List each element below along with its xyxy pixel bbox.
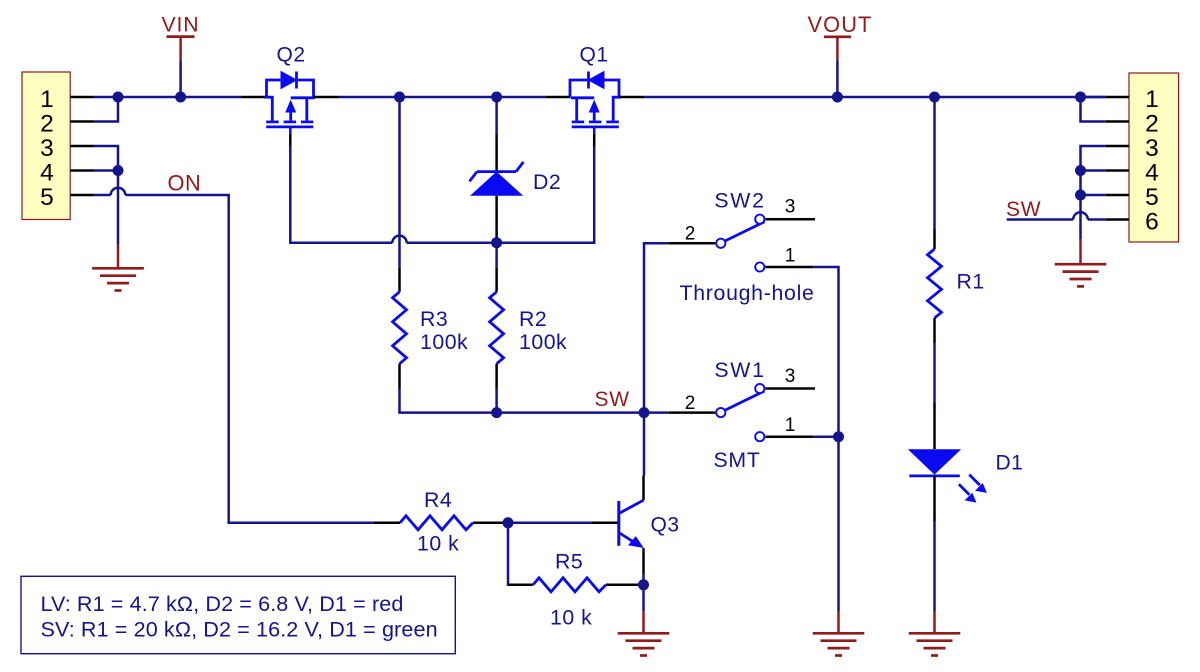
pin Q3 collector stub (642, 476, 645, 501)
note box (21, 576, 455, 653)
svg-text:1: 1 (785, 415, 796, 436)
wire D2 top net (495, 97, 498, 134)
pin 1 of J2 (1106, 96, 1129, 99)
svg-text:Through-hole: Through-hole (680, 281, 815, 305)
wire ON net from J1 pin5 with hop (94, 195, 375, 523)
connector J1 (left, pins 1-5) (22, 72, 70, 220)
svg-text:Q2: Q2 (276, 43, 305, 66)
power flag VIN (162, 12, 200, 60)
node J1 pin4 junction (113, 165, 124, 176)
pin SW2 pin2 stub (668, 242, 715, 245)
wire SW up to SW2 (644, 243, 668, 412)
svg-text:3: 3 (785, 366, 796, 387)
svg-text:5: 5 (40, 184, 54, 211)
wire SW net to J2 pin6 with hop (1007, 218, 1106, 221)
wire J2 pins 3-5 to ground (1081, 146, 1106, 240)
wire R1 to D1 (933, 343, 936, 403)
wire D1 to ground (933, 521, 936, 611)
wire J2 pin2 up to pin1 (1081, 97, 1106, 122)
svg-text:D2: D2 (533, 170, 561, 194)
wire top rail VIN segment (118, 96, 242, 99)
pin 1 of J1 (70, 96, 93, 99)
wire hop over ground wire (right) (1073, 212, 1088, 219)
svg-text:2: 2 (685, 224, 696, 245)
svg-text:R2: R2 (519, 307, 547, 331)
wire hop over R3 wire (392, 236, 406, 243)
pin R2 bottom stub (495, 364, 498, 389)
wire SW1 pin1 to vertical (813, 435, 838, 438)
switch SW2 (716, 215, 764, 272)
pin Q1 stub left (546, 96, 570, 99)
svg-text:2: 2 (40, 110, 54, 137)
resistor R5 (533, 578, 606, 592)
wire SW2 pin1 down to SMT junction (813, 267, 838, 437)
node emitter junction (638, 579, 649, 590)
svg-text:R1: R1 (957, 270, 985, 294)
pin Q3 emitter stub (642, 548, 645, 574)
wire base net to Q3 (508, 522, 592, 525)
svg-text:2: 2 (1145, 110, 1159, 137)
pin Q2 gate stub (289, 134, 292, 146)
ground (below J2) (1055, 240, 1107, 287)
svg-text:ON: ON (168, 171, 202, 196)
pin Q2 source stub (242, 96, 267, 99)
svg-text:4: 4 (40, 159, 54, 186)
pin 3 of J1 (70, 145, 93, 148)
node R2 bottom junction (491, 407, 502, 418)
wire R1 top net (933, 97, 936, 229)
svg-text:R3: R3 (420, 307, 448, 331)
pin Q2 drain stub (314, 96, 339, 99)
pin 3 of J2 (1106, 145, 1129, 148)
pin SW2 pin3 stub (765, 218, 815, 221)
pin R4 right stub (473, 522, 508, 525)
pin R3 top stub (398, 268, 401, 292)
node J2 pin5 junction (1075, 190, 1086, 201)
svg-text:100k: 100k (519, 330, 567, 354)
svg-text:100k: 100k (420, 330, 468, 354)
wire R2 bottom to SW rail (495, 389, 498, 413)
node VIN junction (175, 92, 186, 103)
svg-text:10 k: 10 k (417, 532, 459, 556)
svg-text:4: 4 (1145, 159, 1159, 186)
resistor R4 (400, 516, 473, 530)
resistor R1 (928, 249, 942, 318)
node D2 top junction (491, 92, 502, 103)
pin D1 cathode stub (933, 476, 936, 521)
node VOUT junction (832, 92, 843, 103)
svg-text:2: 2 (685, 393, 696, 414)
wire SW junction down to Q3 collector (643, 413, 646, 476)
diode D1 (LED) (908, 449, 987, 502)
node J1 pin1 junction (113, 92, 124, 103)
svg-text:VIN: VIN (162, 12, 200, 36)
svg-text:3: 3 (785, 197, 796, 218)
pin R4 left stub (374, 522, 400, 525)
pin SW2 pin1 stub (765, 266, 813, 269)
pin SW1 pin2 stub (668, 411, 715, 414)
pin D2 cathode stub (495, 134, 498, 171)
wire R3 top net (398, 97, 401, 268)
node SMT junction (833, 431, 844, 442)
node J2 pin1 junction (1075, 92, 1086, 103)
node SW junction (639, 407, 650, 418)
svg-text:5: 5 (1145, 184, 1159, 211)
pin Q1 gate stub (593, 134, 596, 146)
ground (below D1) (909, 611, 961, 656)
svg-text:SW1: SW1 (714, 358, 765, 382)
svg-text:6: 6 (1145, 208, 1159, 235)
svg-text:SW: SW (595, 388, 630, 411)
node R3 top junction (394, 92, 405, 103)
pin R1 bottom stub (933, 318, 936, 343)
pin D1 anode stub (933, 403, 936, 449)
svg-text:LV: R1 = 4.7 kΩ, D2 = 6.8 V, D: LV: R1 = 4.7 kΩ, D2 = 6.8 V, D1 = red (41, 591, 404, 616)
svg-text:3: 3 (40, 135, 54, 162)
pin 2 of J2 (1106, 120, 1129, 123)
pin 5 of J1 (70, 194, 93, 197)
pin R3 bottom stub (398, 364, 401, 389)
pin 4 of J2 (1106, 169, 1129, 172)
wire SW to SW1 pin2 (644, 411, 668, 414)
pin R2 top stub (495, 268, 498, 292)
wire J1 pin4 (94, 169, 119, 172)
wire VOUT stem (836, 60, 839, 97)
pin R5 left stub (508, 584, 533, 587)
pin D2 anode stub (495, 196, 498, 238)
pin 2 of J1 (70, 120, 93, 123)
pin 6 of J2 (1106, 218, 1129, 221)
wire J1 pin2 up to pin1 (94, 97, 119, 122)
node J2 pin4 junction (1075, 165, 1086, 176)
pin 5 of J2 (1106, 194, 1129, 197)
wire gates net (Q2 gate to Q1 gate) with hop (290, 146, 594, 243)
wire SMT junction down to ground (837, 437, 840, 611)
transistor Q3 (NPN) (619, 500, 644, 548)
svg-text:R4: R4 (424, 488, 452, 512)
svg-text:R5: R5 (555, 550, 583, 574)
pin R1 top stub (933, 229, 936, 249)
svg-text:SW: SW (1006, 198, 1041, 221)
svg-text:SW2: SW2 (714, 189, 765, 213)
transistor Q1 (P-MOSFET with body diode) (570, 72, 621, 135)
wire VIN stem (179, 60, 182, 97)
resistor R2 (490, 292, 504, 364)
connector J2 (right, pins 1-6) (1129, 73, 1179, 242)
svg-text:D1: D1 (996, 451, 1024, 474)
wire R2 top net (495, 243, 498, 268)
wire emitter to ground junction (642, 574, 645, 585)
svg-text:SV: R1 = 20 kΩ, D2 = 16.2 V, D: SV: R1 = 20 kΩ, D2 = 16.2 V, D1 = green (41, 616, 438, 641)
wire top rail VOUT segment (644, 96, 1106, 99)
svg-text:1: 1 (785, 246, 796, 267)
wire top rail Q2-Q1 segment (339, 96, 547, 99)
ground (below switches) (813, 611, 865, 656)
ground (left, J1 pins 3-4) (92, 245, 144, 291)
pin Q1 stub right (619, 96, 644, 99)
svg-text:Q1: Q1 (579, 43, 608, 66)
pin SW1 pin1 stub (765, 435, 813, 438)
svg-text:10 k: 10 k (550, 606, 592, 630)
wire hop over ground wire (111, 188, 126, 195)
switch SW1 (716, 384, 764, 441)
pin SW1 pin3 stub (765, 387, 815, 390)
diode D2 (zener) (470, 162, 524, 196)
svg-text:3: 3 (1145, 135, 1159, 162)
wire J2 pin1 to rail (1081, 96, 1106, 99)
svg-text:Q3: Q3 (651, 514, 680, 537)
svg-text:1: 1 (1145, 86, 1159, 113)
svg-text:SMT: SMT (714, 448, 761, 472)
wire J1 pin1 to VIN rail (94, 96, 119, 99)
node D2 anode junction (491, 237, 502, 248)
svg-text:1: 1 (40, 86, 54, 113)
wire R5 left leg (508, 523, 509, 585)
pin 4 of J1 (70, 169, 93, 172)
wire R3 bottom to SW rail (400, 389, 645, 413)
transistor Q2 (P-MOSFET with body diode) (265, 72, 315, 135)
wire J1 pin3 down to ground (94, 146, 119, 245)
node R4-R5 junction (503, 517, 514, 528)
pin Q3 base stub (592, 522, 618, 525)
svg-text:VOUT: VOUT (808, 12, 873, 37)
power flag VOUT (808, 12, 873, 60)
resistor R3 (393, 292, 407, 364)
pin R5 right stub (606, 584, 644, 587)
node R1 top junction (929, 92, 940, 103)
ground (below Q3) (618, 585, 670, 656)
